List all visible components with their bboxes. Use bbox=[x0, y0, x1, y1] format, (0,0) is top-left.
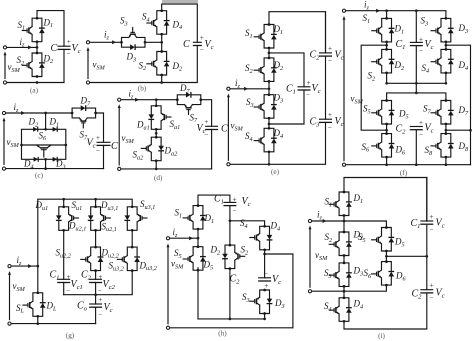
svg-text:+: + bbox=[200, 34, 204, 42]
transistor S1 with diode D1 (e) bbox=[254, 23, 277, 49]
wire top rail (g) bbox=[38, 199, 132, 266]
diode D4 (c) bbox=[34, 157, 39, 162]
transistor S3 with diode D3 (e) bbox=[254, 93, 277, 119]
svg-text:(d): (d) bbox=[154, 174, 163, 182]
wire bridge input stub (c) bbox=[45, 113, 47, 129]
current arrow i_z (f) bbox=[376, 9, 380, 13]
transistor S5 with diode D5 (i) bbox=[372, 226, 395, 252]
capacitor C2 (i) bbox=[420, 290, 433, 293]
svg-text:+: + bbox=[328, 111, 332, 119]
wire bridge1 legs (f) bbox=[387, 42, 446, 83]
wire bottom rail (a) bbox=[5, 49, 64, 82]
wire S3 to column (b) bbox=[145, 34, 162, 51]
grey artifact bar (b) bbox=[162, 0, 198, 3]
wire top rail (h) bbox=[198, 195, 230, 206]
v_SM arrow (c) bbox=[3, 121, 5, 165]
wire column c2 (g) bbox=[95, 230, 97, 323]
wire bottom rail (f) bbox=[344, 130, 471, 165]
wire bottom rail (h) bbox=[168, 327, 293, 329]
v_SM arrow (g) bbox=[9, 275, 11, 320]
capacitor C1 (g) bbox=[57, 279, 70, 282]
v_SM arrow (b) bbox=[87, 51, 89, 79]
subfigure (a) half-bridge submodule bbox=[3, 11, 80, 95]
transistor S4 with diode D4 (h) flipped bbox=[250, 225, 273, 251]
wire C1 to crossbar (h) bbox=[230, 206, 265, 246]
svg-text:−: − bbox=[264, 269, 268, 277]
v_SM arrow (h) bbox=[167, 247, 169, 324]
terminal upper (g) bbox=[8, 265, 11, 268]
junction dots (c) bbox=[20, 112, 67, 170]
wire input (i) bbox=[310, 216, 344, 233]
terminal upper (c) bbox=[2, 111, 5, 114]
wire input (g) bbox=[10, 265, 38, 267]
diode bridge frame (c) bbox=[22, 129, 66, 159]
svg-text:(h): (h) bbox=[218, 330, 227, 338]
diode D1 (c) bbox=[53, 127, 58, 132]
transistor S4 with diode D4 (i) bbox=[329, 296, 352, 322]
junction dots (b) bbox=[160, 41, 163, 84]
wire node n3 branch (e) bbox=[269, 90, 304, 128]
capacitor C3 (e) bbox=[319, 119, 332, 122]
wire input (b) bbox=[88, 41, 121, 43]
wire bridge2 top rail (f) bbox=[387, 93, 446, 101]
wire lower connecting bus (h) bbox=[198, 268, 265, 319]
transistor S1 with diode D1 (h) bbox=[183, 204, 206, 230]
subfigure (i) cross-connected submodule bbox=[308, 178, 444, 341]
svg-text:−: − bbox=[430, 294, 434, 302]
terminal lower (g) bbox=[8, 322, 11, 325]
capacitor C1 (i) bbox=[420, 221, 433, 224]
terminal lower (a) bbox=[3, 81, 6, 84]
wire bridge output stub (c) bbox=[45, 159, 47, 168]
wire right rail (c) bbox=[96, 113, 104, 169]
transistor S2 with diode D2 (e) bbox=[254, 57, 277, 83]
transistor S8 with diode D8 (f) bbox=[431, 132, 454, 158]
transistor S7 with diode D7 (f) bbox=[431, 99, 454, 125]
transistor S3 with diode D3 (h) flipped bbox=[250, 289, 273, 315]
wire S5 to rail (i) bbox=[386, 251, 426, 262]
svg-text:(f): (f) bbox=[400, 169, 408, 177]
wire bottom rail (e) bbox=[228, 12, 325, 165]
wire bottom rail (i) bbox=[344, 178, 427, 330]
capacitor C2 (f) bbox=[410, 127, 423, 130]
wire input (e) bbox=[228, 81, 269, 94]
terminal lower (h) bbox=[166, 326, 169, 329]
subfigure (e) multilevel NPC-type submodule bbox=[227, 12, 344, 177]
wire top rail (e) bbox=[269, 12, 326, 53]
capacitor Co (g) bbox=[89, 304, 102, 307]
svg-text:+: + bbox=[307, 79, 311, 87]
diode D3 (c) bbox=[53, 157, 58, 162]
capacitor C1 (f) bbox=[410, 42, 423, 45]
svg-text:(g): (g) bbox=[66, 331, 75, 339]
transistor Su2,2 with diode Du2,2 (g) bbox=[81, 246, 104, 272]
wire bottom rail (c) bbox=[4, 168, 104, 170]
transistor S4 with diode D4 (b) bbox=[147, 9, 170, 35]
subfigure (c) SM with diode-bridge bidirectional switch bbox=[2, 96, 118, 180]
wire top rail (a) bbox=[37, 11, 64, 47]
transistor S2 with diode D2 (b) bbox=[147, 50, 170, 76]
subfigure (f) double full-bridge submodule bbox=[342, 0, 471, 177]
terminal lower (e) bbox=[227, 163, 230, 166]
transistor S2 with diode D2 (a) bbox=[22, 52, 45, 78]
transistor S5 with diode D5 (h) bbox=[183, 245, 206, 271]
wire S2-S3 link (i) bbox=[343, 256, 345, 263]
svg-text:−: − bbox=[67, 50, 71, 58]
svg-text:−: − bbox=[96, 147, 100, 155]
svg-text:C: C bbox=[51, 43, 58, 54]
svg-text:−: − bbox=[306, 91, 310, 99]
capacitor C2 (g) bbox=[89, 279, 102, 282]
svg-text:−: − bbox=[233, 206, 237, 214]
v_SM arrow (f) bbox=[343, 20, 345, 161]
subfigure (g) multilevel submodule with stacked cells bbox=[8, 198, 157, 340]
wire bottom rail (b) bbox=[88, 46, 197, 83]
terminal lower (d) bbox=[118, 167, 121, 170]
transistor S6 horizontal in bridge (c) bbox=[37, 145, 51, 157]
svg-text:+: + bbox=[204, 118, 208, 126]
current arrow i_z (i) bbox=[323, 219, 327, 223]
current arrow i_z (a) bbox=[28, 45, 32, 49]
junction dots (f) bbox=[385, 9, 472, 166]
switch S7 with diode D7 horizontal (c) bbox=[71, 105, 97, 128]
svg-text:(e): (e) bbox=[271, 168, 280, 176]
transistor S4 with diode D4 (f) bbox=[431, 48, 454, 74]
transistor S1 with diode D1 (f) bbox=[372, 17, 395, 43]
svg-text:−: − bbox=[98, 287, 102, 295]
transistor Su2,1 with diode Du2,1 (g) bbox=[88, 205, 111, 231]
wire right rail (d) bbox=[201, 100, 212, 169]
svg-text:+: + bbox=[419, 36, 423, 44]
current arrow i_z (g) bbox=[28, 264, 32, 268]
terminal upper (b) bbox=[86, 41, 89, 44]
svg-text:−: − bbox=[419, 47, 423, 55]
v_SM arrow (e) bbox=[227, 97, 229, 160]
wire input (h) bbox=[168, 229, 198, 247]
wire cross-connection right (f) bbox=[446, 45, 471, 165]
wire bridge2 legs (f) bbox=[387, 124, 446, 165]
svg-text:−: − bbox=[328, 124, 332, 132]
wire top rail (i) bbox=[344, 178, 427, 222]
wire top rail (b) bbox=[162, 4, 198, 42]
terminal upper (d) bbox=[118, 98, 121, 101]
capacitor C2 (h) bbox=[258, 278, 271, 281]
switch S3 with diode D3 horizontal (b) bbox=[120, 28, 146, 51]
wire cross-connection left (f) bbox=[361, 45, 386, 130]
svg-text:−: − bbox=[430, 225, 434, 233]
transistor S6 with diode D6 (i) bbox=[372, 260, 395, 286]
junction dots (d) bbox=[155, 98, 158, 170]
wire column SL (g) bbox=[37, 266, 39, 324]
svg-text:(a): (a) bbox=[30, 86, 39, 94]
svg-text:−: − bbox=[200, 46, 204, 54]
svg-text:−: − bbox=[98, 311, 102, 319]
svg-text:+: + bbox=[96, 134, 100, 142]
capacitor C (a) bbox=[58, 46, 71, 49]
capacitor C (c) bbox=[97, 142, 111, 145]
transistor S3 with diode D3 (f) bbox=[431, 17, 454, 43]
wire S4 to C2 node (h) bbox=[265, 250, 293, 328]
subfigure (b) half-bridge SM with series switch S3/D3 bbox=[86, 0, 213, 93]
wire cross upper (i) bbox=[344, 221, 386, 228]
wire column c1 (g) bbox=[63, 230, 65, 294]
transistor S4 with diode D4 (e) bbox=[254, 127, 277, 153]
capacitor C2 (e) bbox=[319, 53, 332, 56]
wire input to midpoint node (a) bbox=[5, 42, 37, 53]
transistor Sa1 with diode Da1 (d) rotated bbox=[148, 104, 171, 130]
capacitor C1 (e) bbox=[298, 87, 311, 90]
svg-text:+: + bbox=[430, 282, 434, 290]
wire bridge1 bottom rail (f) bbox=[387, 46, 446, 93]
svg-text:−: − bbox=[328, 57, 332, 65]
v_SM arrow (a) bbox=[4, 55, 6, 79]
svg-text:C: C bbox=[111, 141, 118, 152]
transistor S5 with diode D5 (f) bbox=[372, 99, 395, 125]
transistor Su3,2 with diode Du3,2 (g) bbox=[117, 246, 140, 272]
transistor S3 with diode D3 (i) bbox=[329, 262, 352, 288]
wire column c3 (g) bbox=[64, 230, 133, 294]
transistor S2 with diode D2 (f) bbox=[372, 48, 395, 74]
transistor S2 with diode D2 (h) middle rotated bbox=[222, 244, 245, 270]
terminal upper (h) bbox=[166, 237, 169, 240]
transistor S1 with diode D1 (i) bbox=[329, 191, 352, 217]
wire bottom rail (g) bbox=[10, 323, 96, 325]
wire bottom rail (d) bbox=[119, 168, 211, 170]
transistor S6 with diode D6 (f) bbox=[372, 132, 395, 158]
wire input rail (c) bbox=[4, 112, 72, 114]
transistor S2 with diode D2 (i) bbox=[329, 231, 352, 257]
junction dots (i) bbox=[343, 220, 429, 293]
terminal upper (e) bbox=[227, 87, 230, 90]
wire top rail (f) bbox=[344, 11, 446, 43]
v_SM arrow (d) bbox=[118, 108, 120, 165]
junction dots (e) bbox=[268, 52, 271, 166]
v_SM arrow (i) bbox=[309, 229, 311, 287]
svg-text:+: + bbox=[419, 119, 423, 127]
terminal lower (c) bbox=[2, 167, 5, 170]
svg-text:−: − bbox=[419, 131, 423, 139]
svg-text:+: + bbox=[430, 213, 434, 221]
capacitor C (d) bbox=[205, 126, 218, 129]
subfigure (h) asymmetrical mixed submodule bbox=[166, 194, 293, 338]
svg-text:+: + bbox=[233, 196, 237, 204]
transistor Su3,1 with diode Du3,1 (g) bbox=[124, 205, 147, 231]
wire cross lower (i) bbox=[310, 285, 386, 298]
current arrow i_z (c) bbox=[21, 111, 25, 115]
svg-text:(b): (b) bbox=[138, 85, 147, 93]
svg-text:C: C bbox=[183, 39, 190, 50]
transistor SL with diode DL (g) bbox=[23, 291, 46, 317]
terminal lower (f) bbox=[342, 163, 345, 166]
current arrow i_z (e) bbox=[244, 87, 248, 91]
current arrow i_z (h) bbox=[189, 236, 193, 240]
svg-text:C: C bbox=[221, 124, 228, 135]
switch S7 with diode D7 horizontal (d) bbox=[176, 92, 202, 115]
transistor Su1 with diode Du1 (g) bbox=[56, 205, 79, 231]
terminal lower (i) bbox=[308, 290, 311, 293]
capacitor C (b) bbox=[193, 42, 202, 45]
transistor S1 with diode D1 (a) bbox=[22, 17, 45, 43]
junction dots (a) bbox=[36, 46, 39, 84]
wire column mid (d) bbox=[155, 100, 157, 169]
current arrow i_z (d) bbox=[135, 98, 139, 102]
svg-text:+: + bbox=[98, 296, 102, 304]
svg-text:+: + bbox=[328, 44, 332, 52]
svg-text:−: − bbox=[66, 287, 70, 295]
capacitor C1 (h) bbox=[223, 202, 236, 205]
diode D2 (c) bbox=[33, 127, 38, 132]
svg-text:(i): (i) bbox=[378, 332, 385, 340]
subfigure (d) SM with series switch and two reverse devices bbox=[118, 83, 228, 182]
wire input rail (d) bbox=[119, 99, 177, 101]
wire node n1 branch (e) bbox=[269, 48, 304, 87]
junction dots (h) bbox=[197, 219, 266, 320]
svg-text:+: + bbox=[67, 38, 71, 46]
terminal upper (i) bbox=[308, 219, 311, 222]
transistor Sa2 with diode Da2 (d) bbox=[141, 136, 164, 162]
terminal upper (a) bbox=[3, 46, 6, 49]
current arrow i_z (b) bbox=[112, 40, 116, 44]
junction dots (g) bbox=[36, 198, 96, 325]
terminal upper (f) bbox=[342, 9, 345, 12]
terminal lower (b) bbox=[86, 81, 89, 84]
svg-text:(c): (c) bbox=[35, 172, 44, 180]
